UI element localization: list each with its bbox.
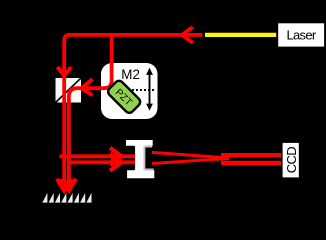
svg-text:CCD: CCD [284,147,299,174]
svg-text:Laser: Laser [286,28,316,43]
svg-text:M2: M2 [121,67,140,82]
